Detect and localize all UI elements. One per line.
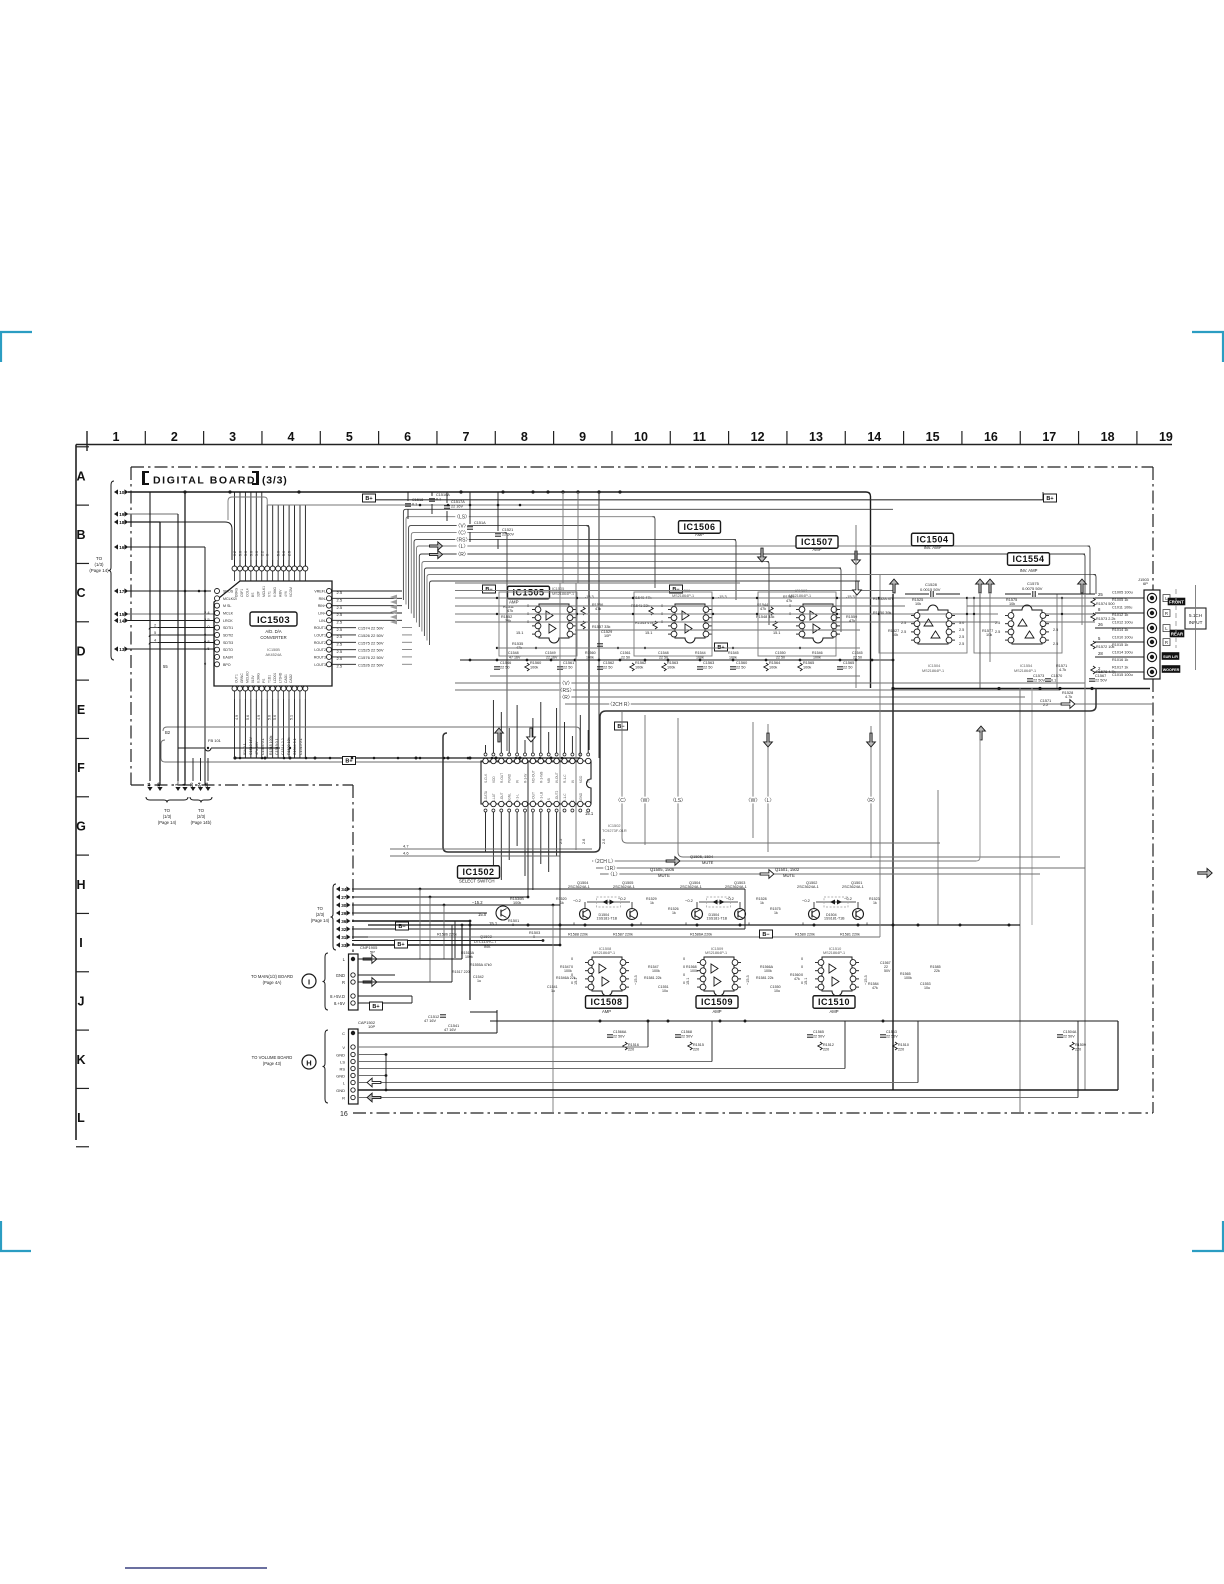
fan E-row lines xyxy=(455,682,1085,684)
svg-text:SDTI2: SDTI2 xyxy=(223,633,233,637)
capresistor R1564 xyxy=(764,663,768,671)
svg-text:R-OUT: R-OUT xyxy=(500,773,504,783)
svg-text:5.0: 5.0 xyxy=(255,551,259,556)
svg-text:47k: 47k xyxy=(595,607,601,611)
svg-text:1u: 1u xyxy=(551,989,555,993)
svg-text:16: 16 xyxy=(119,545,125,550)
connector J1503 box xyxy=(1144,590,1160,679)
svg-text:R1012 1k: R1012 1k xyxy=(1112,613,1128,617)
amp cell loop IC1505 xyxy=(499,592,577,656)
svg-text:E: E xyxy=(77,703,85,717)
mute cell B xyxy=(692,909,703,920)
svg-text:X71: X71 xyxy=(267,591,271,597)
H row junction dots xyxy=(419,888,422,891)
svg-text:5.0: 5.0 xyxy=(959,621,964,625)
top ruler origin tick xyxy=(86,431,88,451)
svg-text:I: I xyxy=(308,978,310,987)
svg-text:IC1554: IC1554 xyxy=(1012,554,1044,564)
svg-text:AMP: AMP xyxy=(712,1009,721,1014)
svg-text:5.1: 5.1 xyxy=(290,715,294,720)
svg-text:R1564: R1564 xyxy=(769,661,780,665)
rail dots C-D band xyxy=(469,659,472,662)
vertical x938 xyxy=(937,790,939,925)
svg-text:(1/3): (1/3) xyxy=(163,814,172,819)
svg-text:AMP: AMP xyxy=(829,1009,838,1014)
edge arrow &lt;33&gt; xyxy=(336,942,340,947)
svg-text:R1565: R1565 xyxy=(803,661,814,665)
svg-text:R1014 1k: R1014 1k xyxy=(1112,628,1128,632)
edge arrow &lt;10&gt; xyxy=(114,489,118,494)
svg-text:R: R xyxy=(1165,611,1168,616)
svg-text:4.9: 4.9 xyxy=(235,715,239,720)
svg-text:(Page 4A): (Page 4A) xyxy=(263,980,282,985)
CNP1905 arrows xyxy=(363,955,377,964)
svg-text:R: R xyxy=(342,1096,345,1101)
svg-text:B+: B+ xyxy=(397,942,404,948)
svg-text:22 50: 22 50 xyxy=(563,666,573,670)
svg-text:5.6: 5.6 xyxy=(268,715,272,720)
capresistor R1565 xyxy=(798,663,802,671)
svg-text:L: L xyxy=(524,800,528,802)
svg-text:4: 4 xyxy=(154,638,157,643)
svg-text:C1515 0.1: C1515 0.1 xyxy=(299,738,303,755)
svg-text:22 50: 22 50 xyxy=(853,656,862,660)
cell boundary rails xyxy=(490,1020,1118,1022)
svg-text:1SS181-T1B: 1SS181-T1B xyxy=(824,917,845,921)
svg-text:C1565: C1565 xyxy=(843,661,854,665)
edge arrow &lt;36&gt; xyxy=(336,918,340,923)
svg-text:2.5: 2.5 xyxy=(337,642,343,647)
svg-text:R1586A 220k: R1586A 220k xyxy=(690,933,712,937)
capresistor R1560 xyxy=(525,663,529,671)
svg-text:GND: GND xyxy=(336,1074,345,1079)
svg-text:13: 13 xyxy=(809,430,823,444)
svg-text:GRNC: GRNC xyxy=(240,673,244,683)
svg-text:WOOFER: WOOFER xyxy=(1163,668,1180,672)
svg-text:47k: 47k xyxy=(786,599,792,603)
svg-text:(2/3): (2/3) xyxy=(197,814,206,819)
long vertical x893 thick xyxy=(892,594,894,1090)
svg-text:0: 0 xyxy=(204,632,207,637)
svg-text:B+: B+ xyxy=(365,496,372,502)
svg-text:2SC3624A-1: 2SC3624A-1 xyxy=(613,885,635,889)
svg-text:100k: 100k xyxy=(530,666,538,670)
svg-text:C1573: C1573 xyxy=(1033,674,1044,678)
svg-text:100k: 100k xyxy=(769,666,777,670)
svg-text:L: L xyxy=(77,1111,85,1125)
svg-text:22 50: 22 50 xyxy=(703,666,713,670)
op-amp U-IC1504 xyxy=(918,605,948,644)
svg-text:L: L xyxy=(343,957,346,962)
svg-text:100k: 100k xyxy=(635,666,643,670)
svg-text:22 50V: 22 50V xyxy=(502,533,515,537)
svg-text:0.1: 0.1 xyxy=(1051,679,1056,683)
svg-text:−15.3: −15.3 xyxy=(634,975,638,985)
svg-text:22 50: 22 50 xyxy=(776,656,785,660)
svg-text:D0RG: D0RG xyxy=(235,587,239,597)
lower rail y660 xyxy=(460,659,893,661)
edge arrow down &lt;25&gt; xyxy=(205,787,210,791)
svg-text:22 50V: 22 50V xyxy=(1095,679,1108,683)
svg-text:C1561: C1561 xyxy=(620,651,631,655)
CNP1905 wires xyxy=(358,958,462,960)
svg-text:R1515: R1515 xyxy=(693,1043,704,1047)
svg-text:R1548 33k: R1548 33k xyxy=(756,615,774,619)
svg-text:C: C xyxy=(342,1031,345,1036)
IC1503 bottom pins xyxy=(232,686,237,691)
svg-text:〈C〉: 〈C〉 xyxy=(615,798,629,804)
border dash-dot right lower xyxy=(1152,679,1154,1113)
IC1508 label box xyxy=(586,996,628,1009)
right arrow G region 2 xyxy=(760,870,774,879)
svg-text:〈2CH R〉: 〈2CH R〉 xyxy=(607,702,632,708)
svg-text:7: 7 xyxy=(463,430,470,444)
svg-text:SDOS: SDOS xyxy=(223,590,234,594)
lower rail y676 xyxy=(490,675,860,677)
wires down to page connectors xyxy=(149,493,151,782)
svg-text:1k: 1k xyxy=(672,911,676,915)
svg-text:IC1506: IC1506 xyxy=(683,522,715,532)
svg-text:4.7: 4.7 xyxy=(403,844,409,849)
svg-text:INV. AMP: INV. AMP xyxy=(924,545,942,550)
svg-text:MCLK/2/: MCLK/2/ xyxy=(223,597,237,601)
svg-text:0: 0 xyxy=(683,965,685,969)
svg-text:SELECT SWITCH: SELECT SWITCH xyxy=(459,879,495,884)
long vertical x856 xyxy=(855,525,857,688)
small left arrows column xyxy=(390,595,397,600)
IC1502 DIP top pins xyxy=(483,758,488,763)
svg-text:33: 33 xyxy=(341,943,347,948)
capresistor C1565 xyxy=(837,666,843,668)
capresistor R1563 xyxy=(662,663,666,671)
IC1503 top pins xyxy=(234,571,236,581)
svg-text:BS: BS xyxy=(251,592,255,597)
svg-text:R1552A 47k: R1552A 47k xyxy=(873,597,894,601)
brace TO 1/3 bottom xyxy=(146,797,188,803)
long vertical x880 xyxy=(879,575,881,937)
svg-text:IC1508: IC1508 xyxy=(590,997,622,1007)
svg-text:C1516A: C1516A xyxy=(436,493,450,497)
svg-text:K: K xyxy=(76,1053,85,1067)
edge arrow down &lt;11&gt; xyxy=(147,787,152,791)
svg-text:4.7k: 4.7k xyxy=(1065,695,1072,699)
svg-text:R1516: R1516 xyxy=(628,1043,639,1047)
op-amp U-IC1505 xyxy=(539,604,569,643)
svg-text:C: C xyxy=(571,799,575,802)
svg-text:50V: 50V xyxy=(884,969,891,973)
svg-text:47u 16V: 47u 16V xyxy=(255,741,259,755)
svg-text:2.4: 2.4 xyxy=(204,610,210,615)
svg-text:B+: B+ xyxy=(345,759,352,765)
svg-text:0.1: 0.1 xyxy=(436,498,441,502)
rail y648 xyxy=(497,647,860,649)
right arrow end of 704 line xyxy=(1061,700,1075,709)
svg-text:R-1-WB: R-1-WB xyxy=(539,772,543,783)
svg-text:B+: B+ xyxy=(372,1004,379,1010)
2CH L fan xyxy=(592,860,976,862)
vertical line through 5.1ch box xyxy=(1195,585,1197,670)
transistor Q1502 inverter xyxy=(496,906,510,920)
svg-text:15.1: 15.1 xyxy=(773,631,780,635)
svg-text:LOUT2: LOUT2 xyxy=(314,648,326,652)
svg-text:220: 220 xyxy=(823,1048,829,1052)
svg-text:100k: 100k xyxy=(764,969,772,973)
IC1502 DIP body xyxy=(481,761,591,804)
svg-text:VDD: VDD xyxy=(492,776,496,783)
border dash-dot left xyxy=(130,467,132,785)
edge arrow &lt;27&gt; xyxy=(336,894,340,899)
op-amp U-IC1506 xyxy=(675,604,705,643)
B+ box top-right xyxy=(1044,494,1057,502)
svg-text:1k: 1k xyxy=(650,901,654,905)
svg-text:Q1505, 1506: Q1505, 1506 xyxy=(650,867,675,872)
svg-text:2.5: 2.5 xyxy=(901,630,906,634)
svg-text:IC1554: IC1554 xyxy=(1020,664,1032,668)
svg-text:R1586 220k: R1586 220k xyxy=(437,933,457,937)
svg-text:MDD: MDD xyxy=(579,775,583,783)
svg-text:100k: 100k xyxy=(513,901,521,905)
edge arrow down &lt;20&gt; xyxy=(190,787,195,791)
svg-text:COL4: COL4 xyxy=(246,588,250,597)
svg-text:5.0: 5.0 xyxy=(282,551,286,556)
circled H xyxy=(302,1055,316,1069)
svg-text:M SL: M SL xyxy=(223,604,231,608)
svg-text:0.0075 50V: 0.0075 50V xyxy=(1022,586,1043,591)
svg-text:10: 10 xyxy=(119,490,125,495)
svg-text:RIN-: RIN- xyxy=(319,597,327,601)
svg-text:25: 25 xyxy=(204,782,209,787)
svg-text:R1017 1k: R1017 1k xyxy=(1112,666,1128,670)
svg-text:0.1: 0.1 xyxy=(412,503,417,507)
svg-text:R1588 220k: R1588 220k xyxy=(568,933,588,937)
up arrow left of IC1504 xyxy=(890,579,899,593)
svg-text:C1005 100u: C1005 100u xyxy=(1112,591,1133,595)
right arrow G region 1 xyxy=(666,857,680,866)
svg-text:2.5: 2.5 xyxy=(337,598,343,603)
svg-text:22 16V: 22 16V xyxy=(546,656,558,660)
svg-text:ROUT2: ROUT2 xyxy=(314,641,326,645)
capresistor C1562 xyxy=(597,666,603,668)
left curve wires from top pins xyxy=(228,497,267,520)
IC1554 label box xyxy=(1008,553,1050,566)
svg-text:2.2: 2.2 xyxy=(260,551,264,556)
svg-text:20: 20 xyxy=(189,782,194,787)
dots on bus y758 xyxy=(239,757,242,760)
svg-text:2.5: 2.5 xyxy=(901,621,906,625)
svg-text:C1012 100u: C1012 100u xyxy=(1112,621,1133,625)
SUR label xyxy=(1162,653,1179,660)
svg-text:(Page 14): (Page 14) xyxy=(311,918,330,923)
svg-text:GND: GND xyxy=(336,973,345,978)
svg-text:5.1: 5.1 xyxy=(587,778,591,783)
svg-text:C1525 22 50V: C1525 22 50V xyxy=(358,648,384,653)
edge arrow &lt;18&gt; xyxy=(114,519,118,524)
bus y758 under IC1503 xyxy=(235,757,580,759)
CNP1502 wires xyxy=(358,1032,497,1034)
svg-text:C1526 22 50V: C1526 22 50V xyxy=(358,633,384,638)
svg-text:10u: 10u xyxy=(774,989,780,993)
bus fan top-right of IC1503 xyxy=(403,509,893,600)
svg-text:19: 19 xyxy=(1159,430,1173,444)
svg-text:LS: LS xyxy=(340,1060,345,1065)
svg-text:2SC3624A-1: 2SC3624A-1 xyxy=(797,885,819,889)
svg-text:27: 27 xyxy=(341,895,347,900)
svg-text:RS: RS xyxy=(339,1067,345,1072)
IC1507 label box xyxy=(796,536,838,549)
svg-text:(Page 14): (Page 14) xyxy=(89,568,109,573)
svg-text:3: 3 xyxy=(229,430,236,444)
svg-text:S.CLK: S.CLK xyxy=(484,773,488,783)
svg-text:〈L〉: 〈L〉 xyxy=(762,798,775,804)
svg-text:C1548: C1548 xyxy=(508,651,519,655)
wire from arrow 16 xyxy=(128,546,205,548)
svg-text:IC1503: IC1503 xyxy=(257,615,290,626)
wire from arrow 19 xyxy=(128,513,178,515)
edge arrow down &lt;24&gt; xyxy=(198,787,203,791)
svg-text:2SC3624A-1: 2SC3624A-1 xyxy=(842,885,864,889)
vertical x1057 xyxy=(1056,594,1058,688)
svg-text:2: 2 xyxy=(154,623,157,628)
brace TO 1/3 page14 left edge xyxy=(109,481,115,660)
svg-text:V: V xyxy=(342,1045,345,1050)
svg-text:1: 1 xyxy=(113,430,120,444)
edge arrow &lt;13&gt; xyxy=(114,646,118,651)
connector J1503 jacks xyxy=(1147,593,1156,602)
svg-text:0: 0 xyxy=(266,554,270,556)
svg-text:10P: 10P xyxy=(368,1024,375,1029)
svg-text:55: 55 xyxy=(163,664,168,669)
pin stub boxes 2 5 4 xyxy=(149,628,158,630)
long vertical x1020 xyxy=(1019,688,1021,1113)
border dash-dot mid horizontal xyxy=(131,784,353,786)
svg-text:24: 24 xyxy=(197,782,202,787)
svg-text:10k: 10k xyxy=(915,602,921,606)
svg-text:〈RS〉: 〈RS〉 xyxy=(454,537,471,543)
IC1509 label box xyxy=(696,996,738,1009)
svg-text:MS21864P-1: MS21864P-1 xyxy=(1014,669,1036,673)
wires to output jacks xyxy=(1095,597,1147,599)
svg-text:〈W〉: 〈W〉 xyxy=(638,798,653,804)
svg-text:R1546A 22k: R1546A 22k xyxy=(556,976,576,980)
svg-text:R1517 220: R1517 220 xyxy=(452,970,470,974)
edge arrow &lt;17&gt; xyxy=(114,588,118,593)
svg-text:TO: TO xyxy=(198,808,205,813)
svg-text:LS: LS xyxy=(547,798,551,802)
svg-text:PS: PS xyxy=(262,678,266,683)
IC1506 label box xyxy=(679,521,721,534)
svg-text:47k: 47k xyxy=(794,977,800,981)
vertical x1032 xyxy=(1031,688,1033,925)
svg-text:MUTE: MUTE xyxy=(702,860,714,865)
svg-text:R1560: R1560 xyxy=(585,651,596,655)
svg-text:S-OUT: S-OUT xyxy=(531,792,535,802)
svg-text:100k: 100k xyxy=(586,656,594,660)
svg-text:C1014 100u: C1014 100u xyxy=(1112,651,1133,655)
svg-text:IC1502: IC1502 xyxy=(462,867,494,877)
svg-text:−15.3: −15.3 xyxy=(746,975,750,985)
svg-text:LRCK: LRCK xyxy=(223,619,233,623)
svg-text:EAUR: EAUR xyxy=(223,655,233,659)
svg-text:18: 18 xyxy=(119,520,125,525)
svg-text:R1005 1k: R1005 1k xyxy=(1112,598,1128,602)
svg-text:F: F xyxy=(77,761,85,775)
op-amp U-IC1510 xyxy=(822,957,852,996)
svg-text:MUTE: MUTE xyxy=(658,873,670,878)
svg-text:C1568: C1568 xyxy=(681,1030,692,1034)
svg-text:IC1510: IC1510 xyxy=(818,997,850,1007)
svg-text:GND: GND xyxy=(336,1088,345,1093)
wire vertical x185 xyxy=(184,492,186,785)
H row wires xyxy=(352,888,745,890)
svg-text:INV. AMP: INV. AMP xyxy=(1020,568,1038,573)
svg-text:J: J xyxy=(78,994,85,1008)
IC1503 top pin wires xyxy=(234,492,236,566)
mute cell A xyxy=(580,909,591,920)
svg-text:C: C xyxy=(76,586,85,600)
svg-text:2.5: 2.5 xyxy=(337,620,343,625)
H brace xyxy=(323,1030,329,1103)
svg-text:MCLK: MCLK xyxy=(223,611,234,615)
svg-text:W: W xyxy=(571,780,575,783)
svg-text:C1576 22 50V: C1576 22 50V xyxy=(358,655,384,660)
svg-text:C1575 22 50V: C1575 22 50V xyxy=(358,640,384,645)
svg-text:MUTE: MUTE xyxy=(783,873,795,878)
svg-text:AMP: AMP xyxy=(509,600,519,605)
svg-text:MD-OUT: MD-OUT xyxy=(531,770,535,783)
CNP1905 connector body xyxy=(349,954,359,1010)
svg-text:LIN+: LIN+ xyxy=(318,611,326,615)
border dash-dot top xyxy=(131,466,1153,468)
svg-text:1.5: 1.5 xyxy=(204,646,210,651)
capresistor C1561 xyxy=(557,666,563,668)
svg-text:D: D xyxy=(76,644,85,658)
up arrow G region xyxy=(977,726,986,740)
wire from arrow 18 xyxy=(128,521,160,523)
svg-text:2.5: 2.5 xyxy=(959,628,964,632)
bus y937 resistor row xyxy=(368,936,880,938)
svg-text:13: 13 xyxy=(119,647,125,652)
svg-text:C151A: C151A xyxy=(474,521,486,525)
B- box near DIP top xyxy=(615,722,628,730)
svg-text:100k: 100k xyxy=(696,656,704,660)
svg-text:R1509: R1509 xyxy=(1075,1043,1086,1047)
svg-text:220: 220 xyxy=(628,1048,634,1052)
svg-text:2: 2 xyxy=(171,430,178,444)
svg-text:MCLK1: MCLK1 xyxy=(262,586,266,597)
svg-text:14: 14 xyxy=(867,430,881,444)
B+ box under IC1506 xyxy=(715,643,728,651)
edge arrow &lt;31&gt; xyxy=(336,934,340,939)
svg-text:(Page 14b): (Page 14b) xyxy=(191,820,212,825)
svg-text:VCOM: VCOM xyxy=(289,587,293,597)
svg-text:L: L xyxy=(343,1081,346,1086)
svg-text:2SC3624A-1: 2SC3624A-1 xyxy=(568,885,590,889)
svg-text:R1510: R1510 xyxy=(898,1043,909,1047)
svg-text:100k: 100k xyxy=(564,969,572,973)
svg-text:SDTO: SDTO xyxy=(223,648,233,652)
loop bottom runs xyxy=(622,838,940,843)
svg-text:MS21864P-1: MS21864P-1 xyxy=(593,951,615,955)
CNP1502 pins xyxy=(351,1031,355,1035)
svg-text:LTD4D: LTD4D xyxy=(278,672,282,683)
svg-text:B2: B2 xyxy=(165,730,171,735)
svg-text:1SS181-T1B: 1SS181-T1B xyxy=(707,917,728,921)
svg-text:0.2: 0.2 xyxy=(233,551,237,556)
svg-text:100k: 100k xyxy=(667,666,675,670)
svg-text:R1581 22k: R1581 22k xyxy=(644,976,662,980)
svg-text:S.LAT: S.LAT xyxy=(492,793,496,802)
svg-text:31: 31 xyxy=(341,935,347,940)
